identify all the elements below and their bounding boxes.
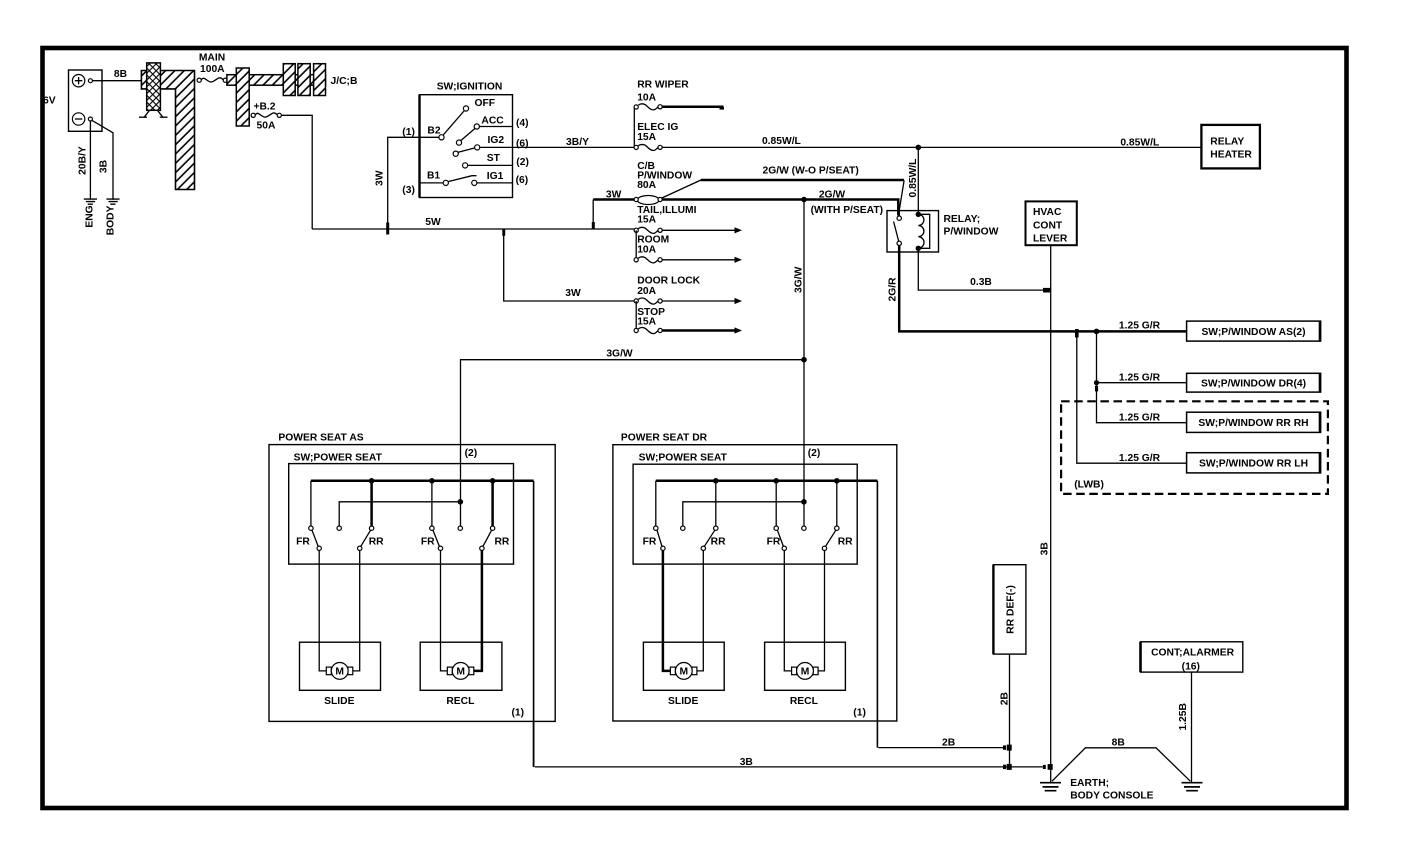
- wire 2G/W (WITH P/SEAT) thick: [662, 200, 898, 216]
- 3B rail: [535, 766, 1043, 768]
- DR ground return to 2B rail: [876, 481, 878, 748]
- wire 0.85W/L to RELAY HEATER: [662, 146, 1201, 148]
- wire battery minus to ENG ground: [89, 121, 91, 200]
- svg-text:(1): (1): [512, 707, 525, 718]
- svg-text:RECL: RECL: [446, 696, 474, 707]
- svg-text:15A: 15A: [637, 215, 656, 226]
- svg-text:IG2: IG2: [488, 135, 505, 146]
- svg-text:(3): (3): [402, 185, 415, 196]
- svg-text:ACC: ACC: [481, 115, 504, 126]
- arm wiper to IG2: [458, 148, 475, 153]
- HVAC CONT LEVER box: [1026, 201, 1077, 245]
- wire ST to pin 2: [467, 164, 512, 166]
- wire ACC to pin 4: [479, 126, 513, 128]
- svg-text:(6): (6): [516, 175, 529, 186]
- contact OFF: [463, 106, 468, 111]
- svg-text:3B/Y: 3B/Y: [566, 137, 589, 148]
- svg-text:3W: 3W: [606, 189, 622, 200]
- svg-text:SLIDE: SLIDE: [668, 696, 698, 707]
- svg-text:5W: 5W: [425, 217, 441, 228]
- relay switch contacts: [897, 216, 901, 220]
- svg-text:3B: 3B: [1039, 542, 1050, 555]
- svg-text:EARTH;: EARTH;: [1070, 778, 1109, 789]
- svg-text:SW;POWER SEAT: SW;POWER SEAT: [639, 452, 728, 463]
- wire riser to C/B P/WINDOW: [592, 200, 594, 230]
- DR bus drop SW2: [715, 481, 717, 526]
- wire ROOM output with arrow: [662, 259, 735, 261]
- fuse ROOM 10A: [634, 257, 662, 263]
- DR bus drop SW3: [775, 481, 777, 526]
- svg-text:10A: 10A: [637, 244, 656, 255]
- svg-text:B2: B2: [427, 126, 440, 137]
- svg-text:1.25 G/R: 1.25 G/R: [1119, 372, 1161, 383]
- SW;POWER SEAT DR inner box: [633, 464, 857, 564]
- junction dot DR branch: [1094, 380, 1099, 385]
- svg-text:1.25 G/R: 1.25 G/R: [1119, 413, 1161, 424]
- DR SW2 arm RR: [704, 530, 714, 546]
- wire 8B trapezoid: [1052, 748, 1190, 781]
- svg-text:SW;IGNITION: SW;IGNITION: [437, 82, 503, 93]
- DR SLIDE motor: [670, 663, 697, 680]
- SW;IGNITION box: [420, 95, 513, 198]
- contact IG1: [472, 180, 477, 185]
- svg-text:(1): (1): [402, 127, 415, 138]
- svg-text:(WITH P/SEAT): (WITH P/SEAT): [811, 205, 883, 216]
- J/C;B bar 3: [314, 64, 326, 96]
- DR contact circles: [654, 526, 658, 530]
- svg-text:50A: 50A: [257, 121, 276, 132]
- wire IG1 to pin 6: [477, 182, 513, 184]
- svg-text:6V: 6V: [43, 96, 56, 107]
- svg-text:ENG: ENG: [85, 205, 96, 227]
- earth ground right: [1182, 783, 1203, 791]
- wire HVAC down to earth 3B: [1050, 245, 1052, 782]
- AS SLIDE motor: [326, 663, 353, 680]
- svg-text:FR: FR: [767, 536, 781, 547]
- AS RECL motor: [447, 663, 474, 680]
- svg-text:M: M: [456, 667, 465, 678]
- svg-text:0.85W/L: 0.85W/L: [908, 159, 919, 198]
- DR SW3 arm FR: [777, 530, 783, 546]
- svg-text:(LWB): (LWB): [1074, 480, 1104, 491]
- fuse ELEC IG 15A: [634, 145, 662, 151]
- J/C;B bar 2: [298, 64, 310, 96]
- arm B1: [448, 176, 477, 182]
- svg-text:(2): (2): [516, 157, 529, 168]
- fusible link MAIN 100A: [201, 78, 223, 82]
- J/C;B band: [283, 75, 325, 86]
- svg-text:P/WINDOW: P/WINDOW: [944, 227, 999, 238]
- AS ground return to 3B rail: [533, 481, 535, 767]
- svg-text:2G/W (W-O P/SEAT): 2G/W (W-O P/SEAT): [763, 165, 859, 176]
- svg-text:FR: FR: [643, 536, 657, 547]
- SW;POWER SEAT AS inner box: [289, 464, 514, 564]
- 5W rail: [312, 228, 634, 230]
- DR wire SW4 to RECL motor: [818, 551, 824, 671]
- svg-text:15A: 15A: [637, 316, 656, 327]
- DR SW4 arm RR: [826, 530, 836, 546]
- vertical link DOOR LOCK to STOP: [635, 301, 637, 331]
- junction dot 3G/W horizontal: [801, 357, 807, 363]
- junction dot on G/R bus: [1094, 329, 1100, 335]
- svg-text:20A: 20A: [637, 286, 656, 297]
- wire 3G/W horizontal to AS seat: [461, 360, 805, 526]
- svg-text:2B: 2B: [942, 738, 955, 749]
- svg-text:POWER SEAT AS: POWER SEAT AS: [278, 433, 363, 444]
- CONT;ALARMER box: [1141, 642, 1243, 673]
- DR switch bus thick: [656, 480, 878, 483]
- wire battery minus to BODY ground: [92, 120, 113, 199]
- svg-text:POWER SEAT DR: POWER SEAT DR: [621, 433, 708, 444]
- DR SW1 arm FR: [657, 530, 662, 546]
- svg-text:SW;P/WINDOW RR RH: SW;P/WINDOW RR RH: [1198, 418, 1308, 429]
- svg-text:SLIDE: SLIDE: [324, 696, 354, 707]
- wire to SW;P/WINDOW RR LH: [1077, 331, 1187, 463]
- svg-text:3W: 3W: [374, 170, 385, 186]
- wire branch DR(4): [1097, 382, 1187, 384]
- ground BODY: [106, 199, 119, 204]
- relay P/WINDOW box: [887, 211, 939, 252]
- RR DEF(-) box: [993, 565, 1026, 654]
- contact IG2: [475, 145, 480, 150]
- DR bus drop SW1: [655, 481, 657, 526]
- fuse RR WIPER 10A: [634, 104, 662, 110]
- svg-text:CONT;ALARMER: CONT;ALARMER: [1151, 647, 1235, 658]
- svg-text:SW;POWER SEAT: SW;POWER SEAT: [294, 452, 383, 463]
- vertical link TAIL to ROOM: [635, 230, 637, 259]
- contact ST: [463, 163, 468, 168]
- svg-text:RR: RR: [494, 536, 509, 547]
- 2B rail: [878, 747, 1003, 749]
- POWER SEAT DR outer box: [613, 445, 897, 721]
- junction tick on G/R bus: [1075, 329, 1079, 337]
- connector tick on 5W at 3W branch: [386, 223, 389, 235]
- AS bus drop SW2 thick: [370, 481, 373, 526]
- AS SW4 arm RR: [483, 530, 492, 546]
- svg-text:RR: RR: [838, 536, 853, 547]
- AS bus drop SW1: [310, 481, 312, 526]
- svg-text:1.25 G/R: 1.25 G/R: [1119, 453, 1161, 464]
- wire B1: [420, 182, 444, 184]
- J/C;B bar 1: [283, 64, 295, 96]
- contact ACC: [474, 124, 479, 129]
- svg-text:M: M: [801, 667, 810, 678]
- arm B2 to OFF: [443, 111, 464, 136]
- svg-text:RR WIPER: RR WIPER: [637, 80, 689, 91]
- svg-text:CONT: CONT: [1033, 220, 1063, 231]
- svg-text:M: M: [680, 667, 689, 678]
- svg-text:(4): (4): [516, 118, 529, 129]
- DR arm end circles: [661, 546, 665, 550]
- junction ticks 3B at earth: [1043, 765, 1046, 769]
- svg-text:SW;P/WINDOW AS(2): SW;P/WINDOW AS(2): [1201, 327, 1305, 338]
- junction ticks 2B: [1003, 745, 1006, 749]
- wire STOP output thick with arrow: [662, 329, 735, 332]
- wire 3G/W vertical: [803, 200, 805, 527]
- harness crosshatch bar: [147, 63, 161, 110]
- DR cross line: [683, 502, 804, 526]
- wire diagonal down to relay contact: [899, 181, 904, 216]
- DR wire SW1 to SLIDE motor thick: [663, 551, 671, 671]
- svg-text:IG1: IG1: [487, 171, 504, 182]
- contact wiper2: [453, 151, 458, 156]
- svg-text:FR: FR: [296, 536, 310, 547]
- DR SLIDE motor box: [643, 642, 724, 690]
- earth ground left: [1040, 783, 1061, 791]
- svg-text:100A: 100A: [200, 64, 225, 75]
- AS switch bus thick: [311, 480, 534, 483]
- AS cross line junction dot: [458, 499, 464, 505]
- battery 6V: [69, 70, 103, 131]
- contact B1: [443, 180, 448, 185]
- svg-text:RR: RR: [711, 536, 726, 547]
- connector tick on 5W at C/B branch: [592, 222, 595, 229]
- AS arm end circles: [317, 546, 321, 550]
- svg-text:B1: B1: [427, 171, 440, 182]
- wire RR WIPER output thick: [662, 106, 723, 109]
- DR wire SW2 to SLIDE motor: [697, 551, 703, 671]
- POWER SEAT AS outer box: [269, 445, 555, 722]
- svg-text:8B: 8B: [114, 69, 127, 80]
- svg-text:2B: 2B: [999, 692, 1010, 705]
- svg-text:RELAY: RELAY: [1210, 136, 1244, 147]
- svg-text:(6): (6): [516, 139, 529, 150]
- svg-text:J/C;B: J/C;B: [331, 76, 358, 87]
- harness fork legs: [139, 110, 168, 117]
- wire TAIL output with arrow: [662, 229, 735, 231]
- box SW;P/WINDOW AS(2): [1187, 321, 1321, 342]
- vertical link RR WIPER to ELEC IG: [633, 107, 635, 147]
- contact B2: [439, 135, 444, 140]
- AS wire SW2 to SLIDE motor: [353, 551, 360, 671]
- circuit breaker C/B P/WINDOW 80A: [634, 196, 662, 205]
- svg-text:FR: FR: [421, 536, 435, 547]
- AS SW3 arm FR: [433, 530, 439, 546]
- wire 0.3B coil to HVAC line: [918, 248, 1049, 290]
- svg-text:RELAY;: RELAY;: [944, 214, 981, 225]
- svg-text:ST: ST: [487, 153, 501, 164]
- AS SW2 arm RR: [361, 530, 371, 546]
- junction ticks 3B: [1003, 765, 1006, 769]
- svg-text:(2): (2): [465, 448, 478, 459]
- svg-text:2G/W: 2G/W: [819, 189, 846, 200]
- svg-text:1.25B: 1.25B: [1178, 703, 1189, 730]
- DR cross junction dot: [801, 499, 807, 505]
- svg-text:3G/W: 3G/W: [606, 348, 633, 359]
- svg-text:3B: 3B: [99, 160, 110, 173]
- relay switch arm: [894, 222, 899, 242]
- wire 0.85W/L drop to relay coil: [917, 147, 919, 214]
- wire RR DEF to 2B rail: [1009, 654, 1011, 767]
- harness bar 2 vertical: [236, 68, 249, 126]
- AS bus drop SW4 thick: [491, 481, 494, 526]
- svg-text:HEATER: HEATER: [1210, 150, 1252, 161]
- AS bus dots: [369, 478, 375, 484]
- DR bus drop SW4: [836, 481, 838, 526]
- relay coil: [916, 212, 930, 251]
- wire 2G/R relay to bus thick: [899, 245, 1186, 331]
- AS cross line: [339, 502, 460, 526]
- fuse STOP 15A: [634, 328, 662, 334]
- wire 3W thick to C/B: [593, 198, 634, 201]
- AS wire SW4 to RECL motor thick: [474, 551, 482, 671]
- contact node +B.2 left: [251, 113, 255, 117]
- box SW;P/WINDOW DR(4): [1187, 373, 1321, 393]
- junction dot 3G/W branch: [801, 197, 807, 203]
- svg-text:1.25 G/R: 1.25 G/R: [1119, 321, 1161, 332]
- svg-text:8B: 8B: [1112, 738, 1125, 749]
- fusible link +B.2 50A: [255, 113, 277, 117]
- ground ENG: [84, 199, 97, 204]
- contact node left of MAIN fuse: [197, 78, 201, 82]
- svg-text:3B: 3B: [740, 757, 753, 768]
- DR RECL motor: [792, 663, 819, 680]
- svg-text:SW;P/WINDOW DR(4): SW;P/WINDOW DR(4): [1201, 378, 1306, 389]
- contact wiper1: [456, 140, 461, 145]
- AS wire SW3 to RECL motor: [441, 551, 448, 671]
- wire ALARMER to ground: [1191, 672, 1193, 782]
- svg-text:RECL: RECL: [790, 696, 818, 707]
- AS RECL motor box: [420, 642, 502, 690]
- svg-text:80A: 80A: [637, 180, 656, 191]
- wire diagonal C/B to 2G/W W-O line: [662, 180, 701, 198]
- fuse DOOR LOCK 20A: [634, 298, 662, 304]
- connector tick on 5W at door lock branch: [502, 229, 505, 236]
- wire 8B battery to harness: [92, 80, 141, 82]
- svg-text:+B.2: +B.2: [253, 102, 275, 113]
- AS SLIDE motor box: [300, 642, 381, 690]
- svg-text:0.85W/L: 0.85W/L: [762, 136, 801, 147]
- svg-text:M: M: [335, 667, 344, 678]
- svg-text:0.3B: 0.3B: [970, 277, 992, 288]
- fuse TAIL,ILLUMI 15A: [634, 227, 662, 233]
- junction dot 0.85W/L relay coil: [916, 145, 922, 151]
- harness L-bar hatched: [141, 71, 194, 190]
- svg-text:OFF: OFF: [475, 98, 496, 109]
- AS bus drop SW3: [431, 481, 433, 526]
- box SW;P/WINDOW RR RH: [1187, 412, 1321, 433]
- wire DOOR LOCK output with arrow: [662, 300, 735, 302]
- DR wire SW3 to RECL motor: [784, 551, 791, 671]
- svg-text:15A: 15A: [637, 132, 656, 143]
- dashed box LWB: [1061, 401, 1328, 494]
- svg-text:3G/W: 3G/W: [793, 266, 804, 293]
- svg-text:LEVER: LEVER: [1033, 233, 1068, 244]
- connector tick 0.3B junction: [1043, 288, 1051, 293]
- wire 5W to DOOR LOCK fuse: [504, 229, 635, 301]
- AS SW1 arm FR: [312, 530, 318, 546]
- svg-text:20B/Y: 20B/Y: [78, 146, 89, 175]
- svg-text:(2): (2): [808, 448, 821, 459]
- svg-text:2G/R: 2G/R: [888, 277, 899, 302]
- svg-text:3W: 3W: [565, 288, 581, 299]
- svg-text:RR DEF(-): RR DEF(-): [1005, 585, 1016, 634]
- svg-text:(16): (16): [1182, 661, 1200, 672]
- AS wire SW1 to SLIDE motor: [319, 551, 326, 671]
- svg-text:0.85W/L: 0.85W/L: [1120, 138, 1159, 149]
- DR RECL motor box: [765, 642, 846, 690]
- wire to SW;P/WINDOW DR and RR RH: [1097, 331, 1187, 422]
- RELAY HEATER box: [1201, 125, 1260, 168]
- AS contact circles: [309, 526, 313, 530]
- svg-text:SW;P/WINDOW RR LH: SW;P/WINDOW RR LH: [1199, 459, 1308, 470]
- wire IG2 to ELEC IG fuse 3B/Y: [480, 146, 635, 148]
- harness bar 2 horizontal: [227, 75, 284, 86]
- wire +B.2 to 5W rail: [281, 115, 312, 229]
- svg-text:10A: 10A: [637, 92, 656, 103]
- box SW;P/WINDOW RR LH: [1187, 452, 1321, 473]
- svg-text:HVAC: HVAC: [1033, 207, 1062, 218]
- svg-text:RR: RR: [369, 536, 384, 547]
- svg-text:MAIN: MAIN: [199, 52, 225, 63]
- wire 2G/W (W-O P/SEAT) thick: [701, 179, 904, 182]
- svg-text:(1): (1): [853, 707, 866, 718]
- svg-text:BODY CONSOLE: BODY CONSOLE: [1070, 790, 1153, 801]
- wire 3W riser to ignition B2: [388, 137, 439, 229]
- svg-text:BODY: BODY: [106, 205, 117, 235]
- DR bus dots: [713, 478, 719, 484]
- arm wiper to ACC: [461, 128, 476, 141]
